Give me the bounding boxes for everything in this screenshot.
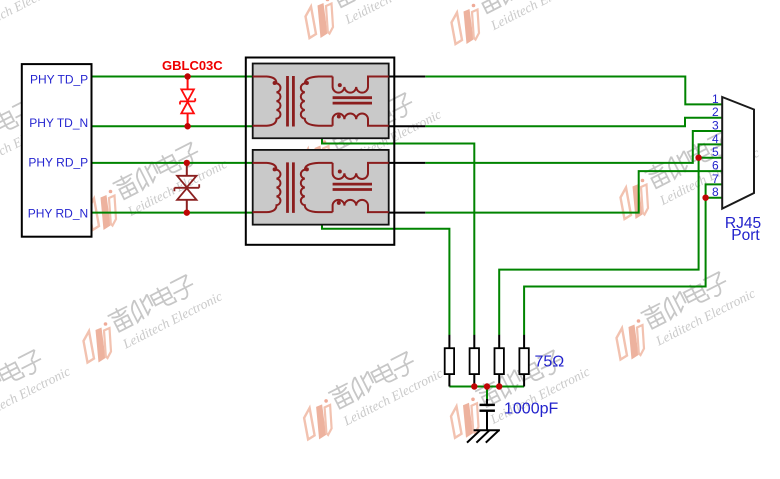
svg-text:3: 3 [712, 119, 719, 133]
svg-text:PHY RD_N: PHY RD_N [28, 206, 88, 220]
svg-text:1: 1 [712, 92, 719, 106]
svg-text:4: 4 [712, 132, 719, 146]
svg-text:GBLC03C: GBLC03C [162, 58, 223, 73]
svg-text:Port: Port [731, 227, 760, 244]
svg-text:PHY TD_N: PHY TD_N [29, 116, 88, 130]
svg-text:8: 8 [712, 185, 719, 199]
svg-text:PHY RD_P: PHY RD_P [28, 156, 88, 170]
svg-text:PHY TD_P: PHY TD_P [30, 72, 88, 86]
svg-text:6: 6 [712, 159, 719, 173]
svg-text:2: 2 [712, 105, 719, 119]
svg-text:5: 5 [712, 145, 719, 159]
svg-text:75Ω: 75Ω [535, 354, 565, 371]
svg-text:7: 7 [712, 172, 719, 186]
svg-text:1000pF: 1000pF [504, 401, 558, 418]
